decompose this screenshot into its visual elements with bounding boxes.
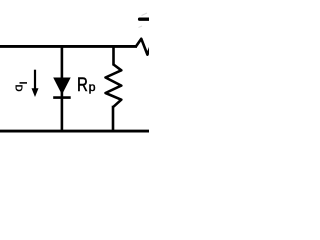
wire: bottom horizontal bus xyxy=(0,130,149,133)
diode D1 cathode bar xyxy=(53,96,70,99)
current arrow I_D shaft xyxy=(34,70,36,90)
resistor R_p zigzag xyxy=(106,65,122,107)
wire: R_p branch top stub xyxy=(112,45,115,66)
svg-text:R: R xyxy=(77,73,88,95)
label R_p xyxy=(77,73,96,95)
current arrow I_D head xyxy=(32,88,39,97)
resistor R_s (clipped at right edge) xyxy=(136,39,152,55)
label: minus dash fragment (top right, clipped) xyxy=(139,13,151,28)
wire: diode branch vertical xyxy=(61,45,64,133)
wire: top horizontal bus xyxy=(0,45,137,48)
diode D1 anode triangle xyxy=(53,78,70,95)
wire: R_p branch bottom stub xyxy=(112,106,115,132)
svg-text:ID: ID xyxy=(12,81,28,91)
svg-text:p: p xyxy=(89,80,96,94)
